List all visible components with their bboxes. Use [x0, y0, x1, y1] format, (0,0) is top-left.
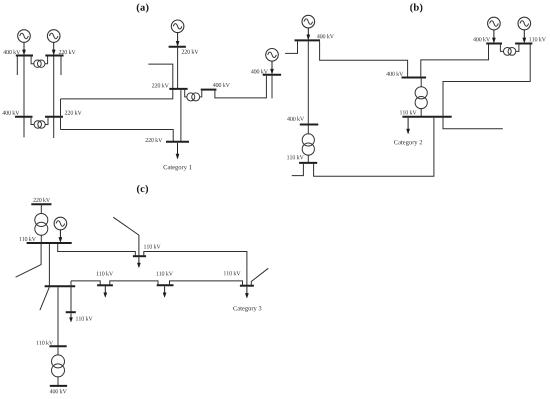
generator G8 — [54, 217, 67, 230]
busbar A7 400 kV — [201, 89, 217, 91]
wire A6 to A9 — [180, 90, 182, 142]
transformer T5 B4-B5 — [302, 126, 314, 163]
voltage label 110 kV (C5) — [37, 341, 54, 345]
busbar C6 400 kV — [50, 385, 67, 387]
wire dangling diagonal into D1 — [113, 217, 139, 256]
transformer T4 B2-B6 — [415, 79, 427, 117]
voltage label 400 kV (A1) — [3, 50, 20, 54]
busbar C2 110 kV — [27, 242, 72, 244]
voltage label 110 kV (C2) — [19, 237, 36, 241]
figure label (b) — [410, 3, 422, 12]
generator G4 — [266, 49, 279, 62]
wire stub below A2 — [60, 57, 62, 76]
busbar A5 220 kV — [169, 46, 186, 48]
busbar B6 110 kV — [402, 116, 451, 118]
busbar C3 110 kV — [45, 285, 76, 287]
voltage label 110 kV (B8) — [529, 37, 546, 41]
wire A5 to A6 — [177, 48, 179, 89]
load arrow at E1 — [104, 286, 107, 297]
busbar A2 220 kV — [45, 55, 63, 57]
infeed arrow G6 to bus B7 — [492, 30, 495, 43]
wire dangling line from B1 — [297, 41, 299, 54]
infeed arrow G2 to bus 220 kV — [52, 42, 55, 54]
voltage label 110 kV (E1) — [97, 271, 114, 275]
busbar D1 110 kV — [133, 255, 146, 257]
generator G2 — [47, 30, 60, 43]
voltage label 400 kV (A3) — [2, 110, 19, 114]
transformer T7 C1-C2 — [35, 205, 48, 243]
text Category 2 — [394, 140, 422, 146]
wire C3 to E1 — [71, 281, 100, 285]
transformer T3 A6-A7 — [185, 90, 202, 101]
text Category 1 — [163, 165, 191, 171]
transformer T6 B7-B8 — [500, 45, 519, 56]
busbar A3 400 kV — [15, 116, 33, 118]
busbar E2 110 kV — [157, 284, 174, 286]
load arrow at E2 — [163, 286, 166, 297]
wire A4 junction vertical — [60, 99, 62, 130]
infeed arrow G4 to bus A8 — [270, 61, 273, 74]
wire D1 to D4 (upper line) — [144, 252, 247, 286]
voltage label 400 kV (A8) — [251, 69, 268, 73]
voltage label 400 kV (C6) — [50, 389, 67, 393]
busbar C1 220 kV — [31, 203, 51, 205]
busbar B2 400 kV — [402, 77, 427, 79]
busbar A1 400 kV — [16, 55, 33, 57]
infeed arrow G8 to bus C2 — [59, 230, 62, 242]
voltage label 220 kV (A5) — [182, 49, 199, 53]
transformer T2 A3-A4 — [31, 118, 48, 128]
busbar B4 400 kV — [300, 124, 319, 126]
voltage label 220 kV (A4) — [65, 110, 82, 114]
wire stub below A8 — [271, 76, 273, 99]
busbar A9 220 kV — [166, 141, 189, 143]
wire A7 to A8 — [215, 76, 267, 98]
wire dangling diagonal from D4 — [251, 268, 268, 284]
busbar A6 220 kV — [169, 88, 187, 90]
voltage label 110 kV (D4) — [224, 271, 241, 275]
generator G1 — [18, 30, 31, 43]
wire E1 to E2 — [110, 281, 158, 285]
voltage label 220 kV (C1) — [33, 198, 50, 202]
busbar E1 110 kV — [97, 284, 113, 286]
voltage label 110 kV (B5) — [287, 155, 304, 159]
voltage label 220 kV (A9) — [146, 138, 163, 142]
voltage label 220 kV (A6) — [152, 83, 169, 87]
wire C3 to C5 — [57, 287, 59, 346]
wire dangling diagonal from C2 — [16, 244, 41, 277]
load arrow at D1 — [137, 257, 140, 267]
voltage label 400 kV (B2) — [386, 72, 403, 76]
wire line A4 to A6 (upper) — [61, 89, 173, 99]
wire C2 to C3 — [48, 244, 50, 286]
wire B2 to B7 — [421, 44, 489, 78]
wire dangling line to B1 — [285, 52, 297, 54]
busbar B5 110 kV — [299, 162, 317, 164]
busbar B7 400 kV — [486, 43, 502, 45]
busbar B8 110 kV — [515, 43, 532, 45]
wire A2 to A4 — [53, 57, 55, 139]
wire dangling line into A6 — [148, 64, 173, 89]
infeed arrow G7 to bus B8 — [523, 30, 526, 43]
voltage label 110 kV (B6) — [400, 110, 417, 114]
busbar A8 400 kV — [263, 74, 281, 76]
figure label (c) — [137, 185, 148, 194]
busbar A4 220 kV — [45, 116, 63, 118]
wire line A4 to A9 (lower) — [61, 130, 174, 142]
voltage label 400 kV (B7) — [473, 37, 490, 41]
voltage label 400 kV (A7) — [213, 83, 230, 87]
infeed arrow G5 to bus B1 — [307, 28, 310, 40]
generator G7 — [518, 17, 531, 30]
generator G5 — [302, 15, 315, 28]
wire stub below A1 — [16, 57, 18, 76]
load arrow Category 1 — [176, 143, 179, 159]
load arrow Category 3 — [245, 287, 248, 298]
busbar D4 110 kV Category 3 — [240, 285, 254, 287]
wire B8 to B6 via right — [443, 45, 530, 129]
figure label (a) — [137, 3, 149, 12]
infeed arrow G3 to bus A5 — [176, 33, 179, 46]
wire A1 to A3 — [23, 57, 25, 138]
busbar C5 110 kV — [49, 345, 66, 347]
voltage label 110 kV (D0) — [76, 316, 93, 320]
transformer T8 C5-C6 — [52, 347, 65, 386]
transformer T1 A1-A2 — [31, 57, 47, 68]
voltage label 400 kV (B4) — [287, 117, 304, 121]
wire dangling diagonal from C3 — [40, 287, 49, 310]
wire dangling line from B5 — [292, 164, 304, 176]
wire C3 to D0 load — [70, 281, 72, 312]
text Category 3 — [233, 306, 261, 312]
voltage label 110 kV (D1) — [144, 244, 161, 248]
infeed arrow G1 to bus 400 kV — [22, 42, 25, 54]
busbar B1 400 kV — [295, 39, 321, 41]
voltage label 110 kV (E2) — [156, 271, 173, 275]
load arrow at D0 — [69, 313, 72, 322]
wire B1 to B2 — [320, 41, 408, 77]
wire B6 to B5 — [314, 118, 434, 176]
voltage label 400 kV (B1) — [317, 34, 334, 38]
wire E2 to D4 (lower line) — [170, 281, 243, 286]
voltage label 220 kV (A2) — [59, 50, 76, 54]
busbar D0 110 kV — [66, 311, 76, 313]
load arrow Category 2 — [407, 118, 410, 134]
wire B1 to B4 — [307, 41, 309, 124]
wire C2 to D1 — [58, 244, 136, 256]
generator G6 — [488, 17, 501, 30]
generator G3 — [171, 20, 184, 33]
